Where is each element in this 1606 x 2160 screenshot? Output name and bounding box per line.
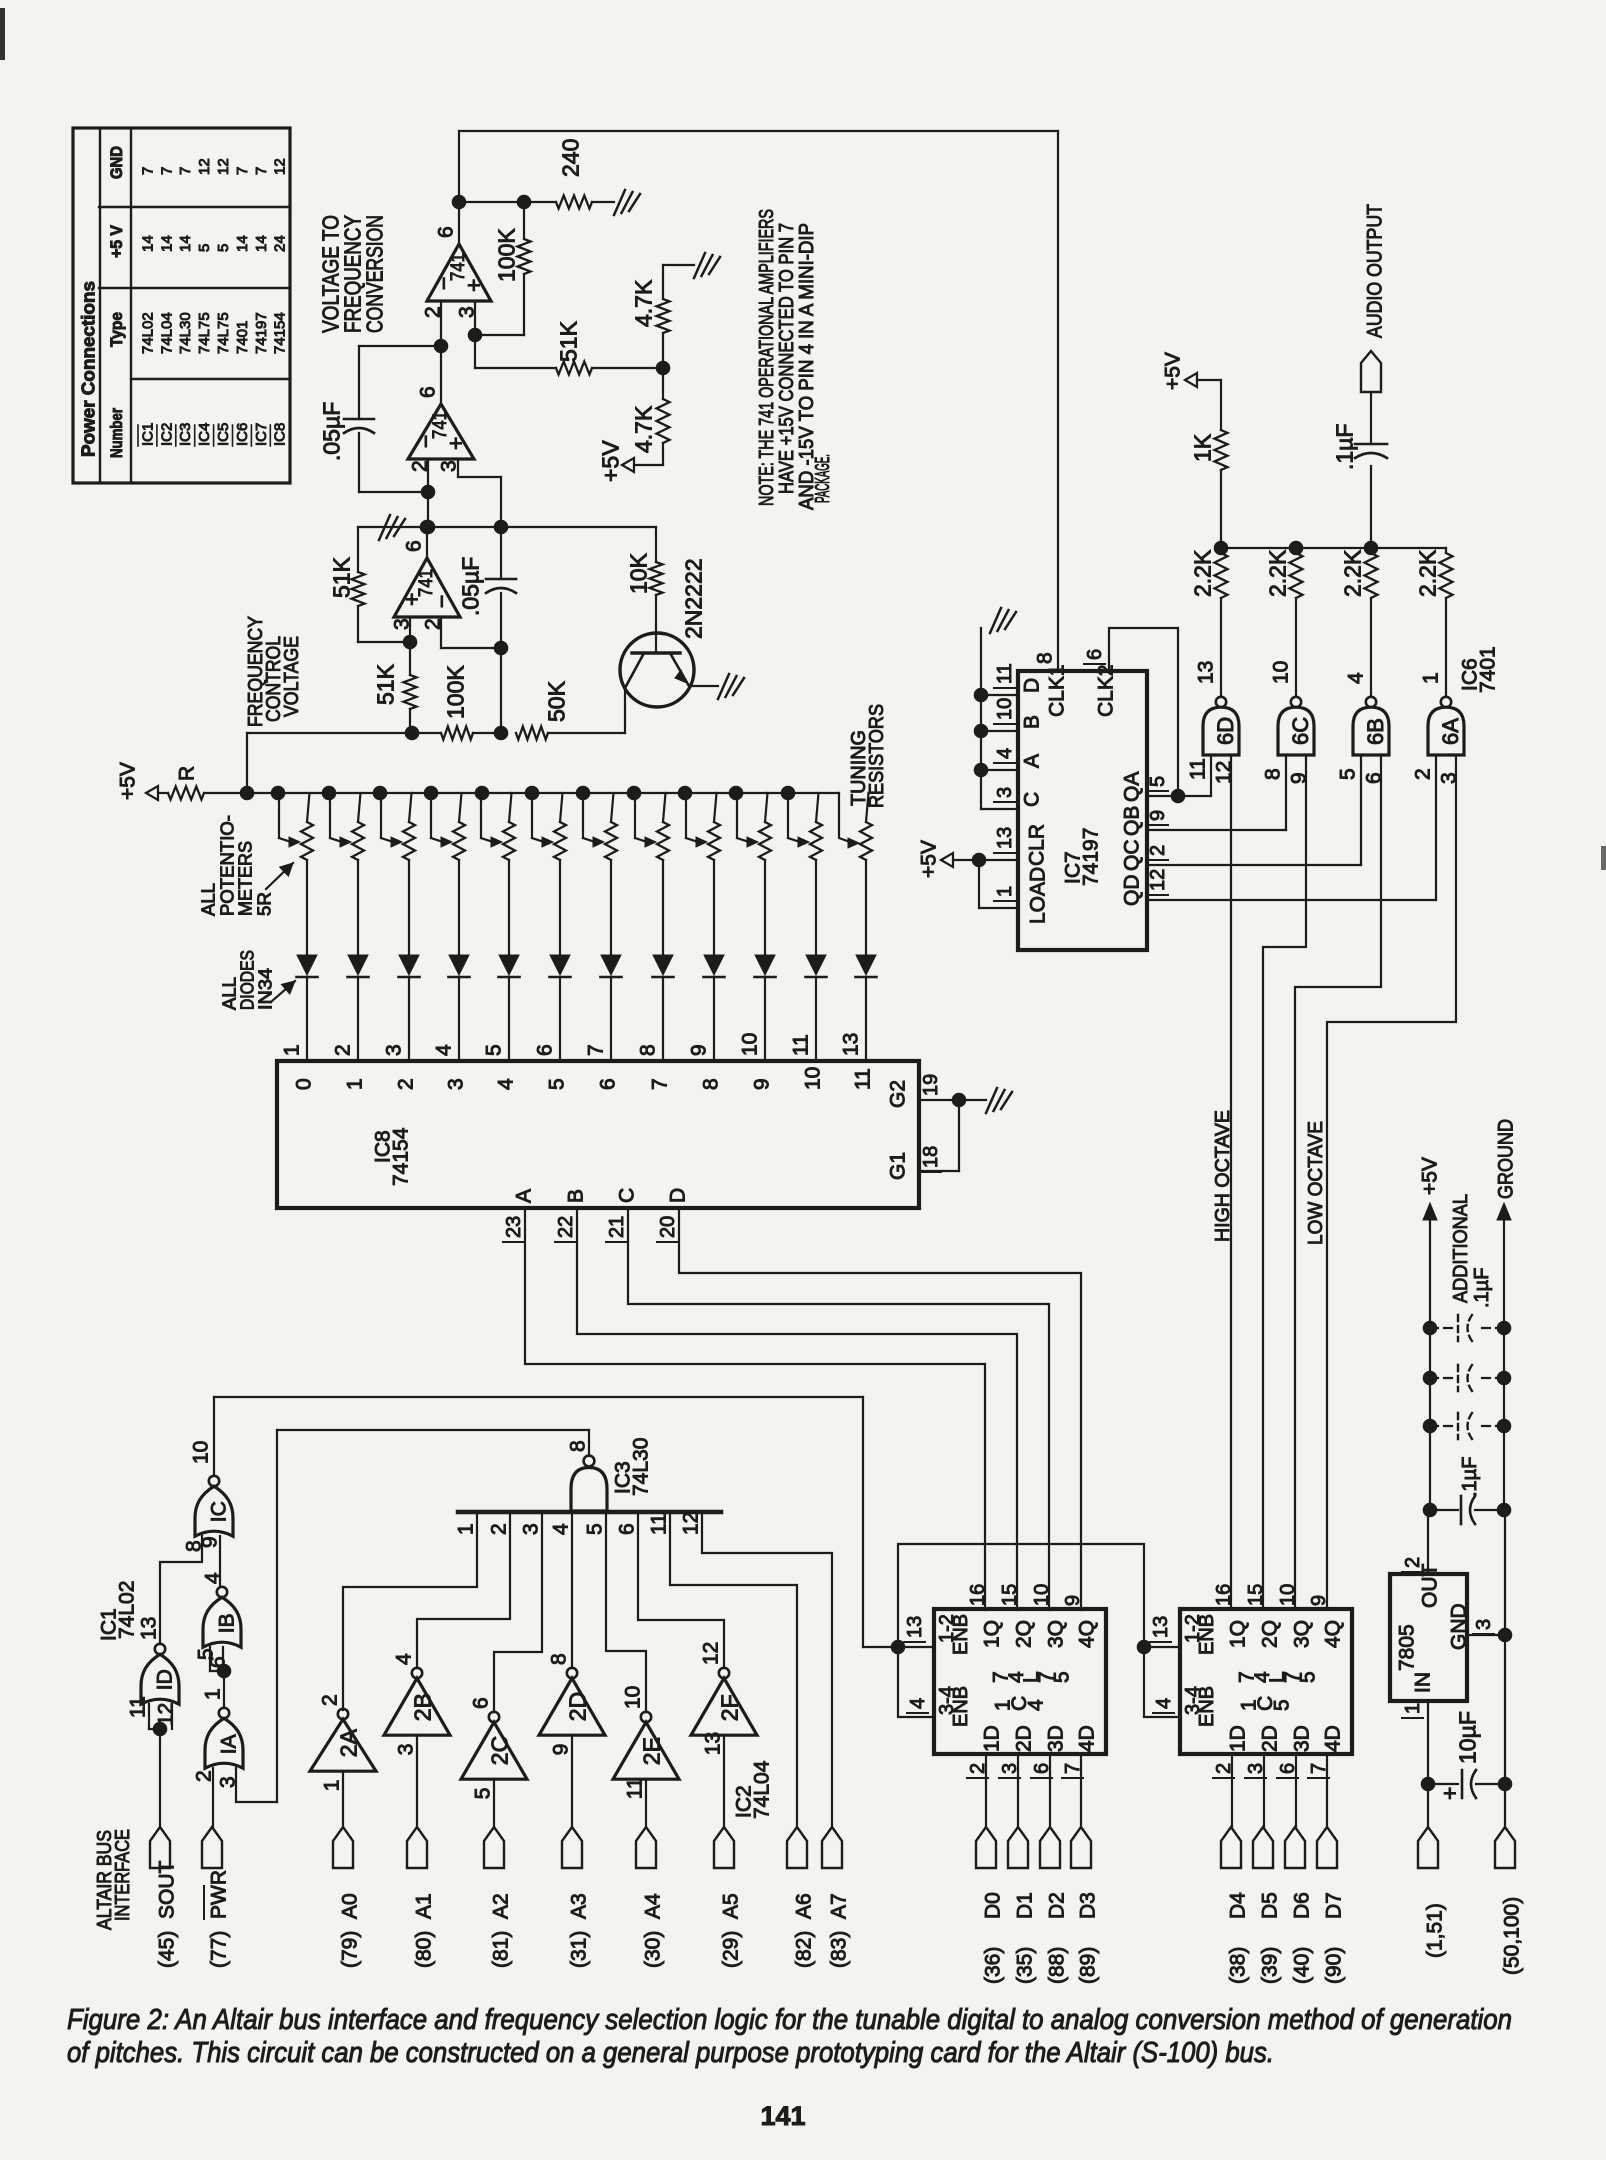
- svg-text:1: 1: [1420, 672, 1443, 684]
- svg-text:4: 4: [550, 1523, 573, 1535]
- svg-text:51K: 51K: [372, 663, 398, 705]
- svg-text:12: 12: [1147, 869, 1169, 891]
- svg-text:7401: 7401: [234, 321, 251, 354]
- svg-text:13: 13: [1195, 661, 1218, 684]
- svg-text:2: 2: [1402, 1557, 1424, 1568]
- svg-text:(50,100): (50,100): [1501, 1897, 1524, 1975]
- svg-text:A2: A2: [490, 1893, 513, 1919]
- svg-text:8: 8: [567, 1440, 590, 1452]
- svg-text:CLK1: CLK1: [1046, 664, 1069, 717]
- svg-text:+5V: +5V: [1162, 352, 1185, 390]
- svg-text:PWR: PWR: [208, 1870, 231, 1919]
- svg-text:4Q: 4Q: [1322, 1620, 1345, 1648]
- svg-text:3: 3: [520, 1523, 543, 1535]
- svg-text:A3: A3: [568, 1893, 591, 1919]
- svg-text:6: 6: [1363, 772, 1386, 784]
- svg-text:ID: ID: [154, 1669, 177, 1690]
- svg-text:9: 9: [751, 1078, 774, 1090]
- svg-text:2: 2: [1147, 845, 1169, 856]
- svg-text:12: 12: [1213, 761, 1236, 784]
- svg-text:D3: D3: [1077, 1892, 1100, 1919]
- svg-text:CONVERSION: CONVERSION: [361, 215, 387, 333]
- svg-text:14: 14: [139, 235, 156, 252]
- svg-text:(80): (80): [413, 1931, 436, 1968]
- svg-text:B: B: [1021, 715, 1044, 729]
- svg-text:19: 19: [920, 1074, 942, 1096]
- svg-text:1: 1: [455, 1523, 478, 1535]
- svg-text:18: 18: [920, 1146, 942, 1168]
- svg-text:D2: D2: [1046, 1892, 1069, 1919]
- svg-text:11: 11: [624, 1777, 647, 1799]
- svg-text:10: 10: [739, 1033, 762, 1056]
- svg-text:1: 1: [344, 1078, 367, 1090]
- svg-text:DIODES: DIODES: [237, 950, 257, 1010]
- svg-text:G2: G2: [887, 1080, 910, 1108]
- svg-text:D: D: [667, 1188, 690, 1203]
- svg-text:7: 7: [253, 167, 270, 175]
- svg-text:C: C: [616, 1188, 639, 1203]
- svg-text:2N2222: 2N2222: [680, 558, 706, 639]
- svg-text:4: 4: [1345, 672, 1368, 684]
- svg-text:14: 14: [253, 235, 270, 252]
- svg-text:24: 24: [272, 235, 289, 252]
- svg-text:(81): (81): [490, 1931, 513, 1968]
- svg-text:8: 8: [637, 1044, 660, 1056]
- svg-text:7: 7: [177, 167, 194, 175]
- svg-text:(83): (83): [828, 1931, 851, 1968]
- svg-text:1D: 1D: [981, 1725, 1004, 1752]
- svg-text:5: 5: [215, 244, 232, 252]
- svg-text:CLK2: CLK2: [1095, 664, 1118, 717]
- svg-text:A5: A5: [720, 1893, 743, 1919]
- svg-text:ALL: ALL: [198, 883, 218, 916]
- svg-text:+5V: +5V: [1419, 1157, 1442, 1195]
- svg-text:Number: Number: [107, 408, 126, 458]
- svg-text:+: +: [460, 279, 486, 292]
- svg-text:51K: 51K: [555, 320, 581, 362]
- svg-text:6: 6: [597, 1078, 620, 1090]
- svg-text:2Q: 2Q: [1259, 1620, 1282, 1648]
- svg-text:5: 5: [1050, 1671, 1073, 1683]
- svg-text:−: −: [430, 277, 456, 290]
- svg-text:3: 3: [1438, 772, 1461, 784]
- svg-text:IC5: IC5: [215, 423, 232, 446]
- svg-text:IC4: IC4: [196, 423, 213, 446]
- svg-text:74L04: 74L04: [751, 1760, 774, 1819]
- svg-text:+: +: [1436, 1787, 1462, 1800]
- svg-text:8: 8: [1034, 652, 1057, 664]
- svg-text:15: 15: [999, 1584, 1021, 1606]
- svg-text:74L02: 74L02: [116, 1581, 139, 1639]
- svg-text:13: 13: [1150, 1616, 1172, 1638]
- svg-text:5R: 5R: [254, 892, 274, 916]
- svg-text:IC7: IC7: [253, 423, 270, 446]
- svg-text:IC: IC: [208, 1501, 231, 1522]
- svg-text:POTENTIO-: POTENTIO-: [217, 815, 237, 916]
- svg-text:.1µF: .1µF: [1459, 1457, 1481, 1497]
- svg-text:4: 4: [907, 1698, 929, 1709]
- svg-text:1: 1: [1402, 1703, 1424, 1714]
- svg-text:+: +: [442, 437, 468, 450]
- svg-text:3: 3: [395, 1744, 418, 1756]
- svg-text:IC8: IC8: [272, 423, 289, 446]
- svg-text:2.2K: 2.2K: [1264, 549, 1290, 597]
- svg-text:RESISTORS: RESISTORS: [866, 704, 888, 808]
- svg-text:2F: 2F: [716, 1694, 742, 1721]
- svg-text:74L30: 74L30: [630, 1438, 653, 1496]
- svg-text:5: 5: [483, 1044, 506, 1056]
- svg-text:12: 12: [272, 158, 289, 175]
- svg-text:2E: 2E: [638, 1737, 664, 1765]
- svg-text:D5: D5: [1259, 1892, 1282, 1919]
- svg-text:3: 3: [445, 1078, 468, 1090]
- svg-text:1: 1: [994, 886, 1016, 897]
- svg-text:4: 4: [202, 1572, 225, 1584]
- svg-text:IN: IN: [1412, 1672, 1435, 1693]
- svg-text:NOTE: THE 741 OPERATIONAL AMPL: NOTE: THE 741 OPERATIONAL AMPLIFIERS: [756, 209, 778, 506]
- svg-text:3Q: 3Q: [1045, 1620, 1068, 1648]
- svg-text:12: 12: [700, 1642, 723, 1665]
- svg-text:3: 3: [1473, 1619, 1495, 1630]
- svg-text:D0: D0: [982, 1892, 1005, 1919]
- svg-text:A: A: [513, 1189, 536, 1203]
- svg-text:HIGH OCTAVE: HIGH OCTAVE: [1212, 1110, 1234, 1242]
- svg-text:A1: A1: [413, 1893, 436, 1919]
- svg-text:50K: 50K: [543, 680, 569, 722]
- svg-text:5: 5: [1271, 1699, 1294, 1711]
- svg-text:13: 13: [904, 1616, 926, 1638]
- svg-text:51K: 51K: [328, 556, 354, 598]
- svg-text:74197: 74197: [1080, 828, 1103, 886]
- svg-text:10: 10: [622, 1686, 645, 1709]
- svg-text:+5 V: +5 V: [107, 224, 126, 258]
- svg-text:AUDIO OUTPUT: AUDIO OUTPUT: [1364, 204, 1387, 338]
- svg-text:100K: 100K: [442, 665, 468, 719]
- svg-text:8: 8: [1262, 768, 1285, 780]
- svg-text:D1: D1: [1014, 1892, 1037, 1919]
- svg-text:4Q: 4Q: [1076, 1620, 1099, 1648]
- svg-text:13: 13: [840, 1033, 863, 1056]
- svg-text:11: 11: [127, 1696, 150, 1718]
- svg-text:(36): (36): [982, 1947, 1005, 1984]
- svg-text:6: 6: [470, 1697, 493, 1709]
- svg-text:16: 16: [967, 1584, 989, 1606]
- svg-text:(79): (79): [339, 1931, 362, 1968]
- svg-text:3D: 3D: [1045, 1725, 1068, 1752]
- svg-text:D: D: [1021, 678, 1044, 693]
- svg-text:IN34: IN34: [255, 968, 275, 1010]
- svg-text:23: 23: [503, 1216, 525, 1238]
- svg-text:ENB: ENB: [950, 1614, 972, 1655]
- svg-text:A4: A4: [642, 1893, 665, 1919]
- svg-text:4.7K: 4.7K: [630, 405, 656, 453]
- svg-text:74L75: 74L75: [215, 312, 232, 354]
- svg-text:12: 12: [196, 158, 213, 175]
- svg-text:5: 5: [1147, 776, 1169, 787]
- svg-text:1K: 1K: [1189, 433, 1215, 462]
- svg-text:LOAD: LOAD: [1027, 867, 1050, 924]
- svg-text:4: 4: [393, 1653, 416, 1665]
- svg-text:3: 3: [994, 787, 1016, 798]
- svg-text:1D: 1D: [1227, 1725, 1250, 1752]
- svg-text:1: 1: [281, 1044, 304, 1056]
- svg-text:CLR: CLR: [1026, 824, 1049, 866]
- svg-text:2.2K: 2.2K: [1414, 549, 1440, 597]
- svg-text:(90): (90): [1323, 1947, 1346, 1984]
- svg-text:6: 6: [403, 540, 426, 552]
- svg-text:G1: G1: [887, 1152, 910, 1180]
- svg-text:20: 20: [657, 1216, 679, 1238]
- svg-text:2: 2: [332, 1044, 355, 1056]
- svg-text:(1,51): (1,51): [1424, 1903, 1447, 1958]
- svg-text:6: 6: [534, 1044, 557, 1056]
- svg-text:IA: IA: [218, 1734, 241, 1754]
- svg-text:A7: A7: [828, 1893, 851, 1919]
- svg-text:10: 10: [190, 1441, 213, 1464]
- svg-text:11: 11: [790, 1034, 813, 1056]
- svg-text:.1µF: .1µF: [1331, 424, 1357, 470]
- svg-text:R: R: [176, 766, 199, 781]
- svg-text:(89): (89): [1077, 1947, 1100, 1984]
- svg-text:7: 7: [585, 1044, 608, 1056]
- svg-text:6: 6: [417, 386, 440, 398]
- svg-text:6: 6: [435, 226, 458, 238]
- svg-text:.05µF: .05µF: [457, 557, 483, 616]
- svg-text:(82): (82): [793, 1931, 816, 1968]
- svg-text:4.7K: 4.7K: [630, 279, 656, 327]
- svg-text:3Q: 3Q: [1291, 1620, 1314, 1648]
- svg-text:(45): (45): [156, 1931, 179, 1968]
- svg-text:3: 3: [383, 1044, 406, 1056]
- svg-text:(31): (31): [568, 1931, 591, 1968]
- svg-text:−: −: [412, 435, 438, 448]
- svg-text:IB: IB: [216, 1613, 239, 1633]
- svg-text:13: 13: [994, 827, 1016, 849]
- svg-text:4: 4: [1153, 1698, 1175, 1709]
- svg-text:9: 9: [550, 1744, 573, 1756]
- svg-text:12: 12: [215, 158, 232, 175]
- svg-text:IC3: IC3: [177, 423, 194, 446]
- svg-text:IC6: IC6: [234, 423, 251, 446]
- svg-text:2A: 2A: [335, 1728, 361, 1757]
- svg-text:7401: 7401: [1477, 646, 1500, 693]
- svg-text:GROUND: GROUND: [1495, 1119, 1518, 1199]
- svg-text:B: B: [565, 1189, 588, 1203]
- svg-text:−: −: [428, 595, 454, 608]
- svg-text:+5V: +5V: [918, 840, 941, 878]
- svg-text:141: 141: [760, 2101, 805, 2131]
- svg-text:74154: 74154: [272, 312, 289, 354]
- svg-text:74154: 74154: [390, 1127, 413, 1186]
- svg-text:4: 4: [495, 1078, 518, 1090]
- svg-text:3D: 3D: [1291, 1725, 1314, 1752]
- svg-text:8: 8: [548, 1653, 571, 1665]
- svg-text:6: 6: [1084, 649, 1106, 660]
- svg-text:10K: 10K: [625, 552, 651, 594]
- svg-text:2Q: 2Q: [1013, 1620, 1036, 1648]
- svg-text:2D: 2D: [564, 1692, 590, 1721]
- svg-text:A: A: [1021, 754, 1044, 768]
- svg-text:2: 2: [1412, 768, 1435, 780]
- svg-text:of pitches. This circuit can: of pitches. This circuit can be construc…: [67, 2037, 1274, 2069]
- svg-text:QB: QB: [1121, 806, 1144, 836]
- svg-text:HAVE +15V CONNECTED TO PIN 7: HAVE +15V CONNECTED TO PIN 7: [776, 223, 798, 494]
- svg-text:5: 5: [196, 244, 213, 252]
- svg-text:2D: 2D: [1259, 1725, 1282, 1752]
- svg-text:21: 21: [606, 1216, 628, 1238]
- svg-text:ENB: ENB: [1196, 1614, 1218, 1655]
- svg-text:7: 7: [234, 167, 251, 175]
- svg-text:6: 6: [616, 1523, 639, 1535]
- svg-text:1: 1: [321, 1780, 344, 1792]
- svg-text:+5V: +5V: [117, 762, 140, 800]
- svg-text:7: 7: [158, 167, 175, 175]
- svg-text:ENB: ENB: [1196, 1686, 1218, 1727]
- svg-text:.05µF: .05µF: [318, 402, 344, 461]
- svg-text:11: 11: [648, 1513, 671, 1535]
- svg-text:D4: D4: [1227, 1892, 1250, 1919]
- svg-text:5: 5: [1337, 768, 1360, 780]
- svg-text:D6: D6: [1291, 1892, 1314, 1919]
- svg-text:(77): (77): [208, 1931, 231, 1968]
- svg-text:5: 5: [584, 1523, 607, 1535]
- svg-text:(35): (35): [1014, 1947, 1037, 1984]
- svg-text:Power Connections: Power Connections: [78, 281, 98, 457]
- svg-text:QD: QD: [1121, 875, 1144, 907]
- svg-text:METERS: METERS: [235, 841, 255, 916]
- svg-text:GND: GND: [1448, 1603, 1471, 1650]
- svg-text:4: 4: [433, 1044, 456, 1056]
- svg-text:14: 14: [234, 235, 251, 252]
- svg-text:74197: 74197: [253, 312, 270, 354]
- svg-text:7805: 7805: [1396, 1624, 1419, 1671]
- svg-text:2.2K: 2.2K: [1189, 549, 1215, 597]
- svg-text:1Q: 1Q: [981, 1620, 1004, 1648]
- svg-text:(88): (88): [1046, 1947, 1069, 1984]
- svg-text:1: 1: [202, 1688, 225, 1700]
- svg-text:22: 22: [555, 1216, 577, 1238]
- svg-text:2D: 2D: [1013, 1725, 1036, 1752]
- svg-text:2: 2: [319, 1694, 342, 1706]
- svg-text:ADDITIONAL: ADDITIONAL: [1450, 1194, 1472, 1303]
- svg-text:SOUT: SOUT: [156, 1860, 179, 1919]
- svg-text:10: 10: [994, 698, 1016, 720]
- svg-text:11: 11: [852, 1068, 875, 1090]
- svg-text:+5V: +5V: [597, 440, 623, 482]
- svg-text:.1µF: .1µF: [1471, 1268, 1493, 1308]
- svg-text:4D: 4D: [1322, 1725, 1345, 1752]
- svg-text:4: 4: [994, 748, 1016, 759]
- svg-text:IC2: IC2: [158, 423, 175, 446]
- svg-text:2B: 2B: [409, 1693, 435, 1721]
- svg-text:Figure 2: An Altair bus inter: Figure 2: An Altair bus interface and fr…: [67, 2004, 1512, 2036]
- svg-text:14: 14: [177, 235, 194, 252]
- svg-text:6D: 6D: [1213, 717, 1238, 745]
- svg-text:6C: 6C: [1288, 717, 1313, 745]
- svg-text:GND: GND: [107, 146, 126, 179]
- svg-text:8: 8: [700, 1078, 723, 1090]
- svg-text:Type: Type: [107, 312, 126, 347]
- svg-text:2: 2: [395, 1078, 418, 1090]
- svg-text:4D: 4D: [1076, 1725, 1099, 1752]
- svg-text:74L02: 74L02: [139, 312, 156, 354]
- svg-text:7: 7: [649, 1078, 672, 1090]
- svg-text:74L30: 74L30: [177, 312, 194, 354]
- svg-text:QC: QC: [1121, 840, 1144, 872]
- svg-text:5: 5: [472, 1788, 495, 1800]
- svg-text:ENB: ENB: [950, 1686, 972, 1727]
- svg-text:(40): (40): [1291, 1947, 1314, 1984]
- svg-text:13: 13: [138, 1617, 161, 1640]
- svg-text:7: 7: [139, 167, 156, 175]
- svg-text:2: 2: [488, 1523, 511, 1535]
- svg-text:(38): (38): [1227, 1947, 1250, 1984]
- svg-text:6B: 6B: [1363, 718, 1388, 745]
- svg-text:1Q: 1Q: [1227, 1620, 1250, 1648]
- svg-text:14: 14: [158, 235, 175, 252]
- svg-text:10: 10: [1270, 661, 1293, 684]
- svg-text:PACKAGE.: PACKAGE.: [812, 454, 834, 503]
- svg-text:11: 11: [1187, 758, 1210, 780]
- svg-text:LOW OCTAVE: LOW OCTAVE: [1305, 1121, 1327, 1245]
- svg-text:74L04: 74L04: [158, 312, 175, 354]
- svg-text:(39): (39): [1259, 1947, 1282, 1984]
- svg-text:2.2K: 2.2K: [1339, 549, 1365, 597]
- svg-text:A6: A6: [793, 1893, 816, 1919]
- svg-text:C: C: [1021, 792, 1044, 807]
- svg-text:VOLTAGE: VOLTAGE: [281, 636, 303, 717]
- svg-text:11: 11: [994, 663, 1016, 684]
- svg-text:(30): (30): [642, 1931, 665, 1968]
- svg-text:A0: A0: [339, 1893, 362, 1919]
- svg-text:10: 10: [802, 1067, 825, 1090]
- svg-text:100K: 100K: [493, 228, 519, 282]
- svg-text:0: 0: [293, 1078, 316, 1090]
- svg-text:9: 9: [688, 1044, 711, 1056]
- svg-text:10µF: 10µF: [1454, 1711, 1480, 1764]
- svg-text:12: 12: [680, 1512, 703, 1535]
- svg-text:QA: QA: [1121, 772, 1144, 802]
- svg-text:IC1: IC1: [139, 423, 156, 446]
- svg-text:9: 9: [1288, 772, 1311, 784]
- svg-text:+: +: [398, 593, 424, 606]
- svg-text:9: 9: [1062, 1595, 1084, 1606]
- svg-text:9: 9: [1147, 810, 1169, 821]
- svg-text:2C: 2C: [486, 1736, 512, 1765]
- svg-text:13: 13: [702, 1732, 725, 1755]
- svg-text:INTERFACE: INTERFACE: [112, 1829, 134, 1921]
- svg-text:240: 240: [557, 139, 583, 177]
- svg-text:4: 4: [1025, 1699, 1048, 1711]
- svg-text:D7: D7: [1323, 1892, 1346, 1919]
- svg-text:OUT: OUT: [1419, 1564, 1442, 1609]
- svg-text:74L75: 74L75: [196, 312, 213, 354]
- svg-text:10: 10: [1031, 1584, 1053, 1606]
- svg-text:5: 5: [1296, 1671, 1319, 1683]
- svg-text:5: 5: [546, 1078, 569, 1090]
- svg-text:ALL: ALL: [219, 977, 239, 1010]
- svg-text:(29): (29): [720, 1931, 743, 1968]
- svg-text:6A: 6A: [1438, 718, 1463, 745]
